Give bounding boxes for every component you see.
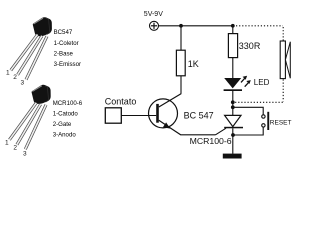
- wire LED to anode node: [232, 91, 234, 115]
- MCR100-6 package leg pin 2: [17, 104, 41, 144]
- svg-text:Contato: Contato: [105, 96, 137, 106]
- svg-text:MCR100-6: MCR100-6: [53, 100, 83, 107]
- switch contact box Contato: [105, 108, 121, 123]
- wire dotted speaker return: [235, 101, 283, 103]
- BC547 package leg pin 3: [26, 36, 47, 79]
- svg-text:2-Base: 2-Base: [54, 51, 74, 58]
- node junction at 1K branch: [179, 24, 183, 28]
- thyristor MCR100-6: [216, 115, 244, 134]
- wire to RESET bottom: [234, 127, 264, 135]
- svg-text:3-Emissor: 3-Emissor: [54, 61, 81, 68]
- svg-text:MCR100-6: MCR100-6: [190, 136, 232, 146]
- MCR100-6 package leg pin 1: [9, 103, 36, 140]
- wire top rail: [159, 25, 234, 27]
- node speaker return junction: [231, 100, 235, 104]
- svg-text:1K: 1K: [188, 59, 199, 69]
- wire cathode to ground: [232, 128, 234, 154]
- svg-text:3-Anodo: 3-Anodo: [53, 132, 77, 139]
- svg-text:1: 1: [5, 140, 9, 147]
- wire emitter to gate: [180, 134, 215, 136]
- wire Contato to base: [121, 115, 156, 117]
- BC547 package body: [33, 17, 52, 36]
- wire rail to 330R: [232, 26, 234, 34]
- wire dotted rail to speaker: [236, 25, 283, 27]
- svg-text:1-Coletor: 1-Coletor: [54, 40, 79, 47]
- speaker LS1: [280, 41, 290, 79]
- svg-text:BC 547: BC 547: [184, 111, 214, 121]
- supply terminal 5V-9V: [144, 11, 163, 30]
- LED D1: [224, 76, 251, 91]
- resistor 330R: [228, 34, 260, 58]
- node junction at 330R branch: [231, 24, 235, 28]
- pushbutton RESET: [262, 112, 270, 130]
- svg-text:2: 2: [13, 145, 17, 152]
- MCR100-6 package body: [32, 85, 51, 104]
- resistor 1K: [176, 50, 198, 76]
- wire dotted speaker bottom lead: [282, 79, 284, 101]
- svg-text:1: 1: [6, 69, 10, 76]
- wire rail to 1K: [180, 26, 182, 50]
- node reset top junction: [231, 105, 235, 109]
- wire 330R to LED: [232, 58, 234, 79]
- ground: [223, 154, 242, 159]
- svg-text:330R: 330R: [239, 41, 261, 51]
- svg-text:2-Gate: 2-Gate: [53, 121, 72, 128]
- MCR100-6 package leg pin 3: [25, 105, 46, 149]
- node reset bottom junction: [231, 133, 235, 137]
- wire to RESET top: [234, 107, 264, 115]
- svg-text:2: 2: [13, 74, 17, 81]
- svg-text:RESET: RESET: [270, 120, 292, 127]
- svg-text:1-Catodo: 1-Catodo: [53, 110, 79, 117]
- svg-text:BC547: BC547: [54, 29, 73, 36]
- BC547 package leg pin 2: [18, 36, 42, 75]
- svg-text:3: 3: [21, 80, 25, 87]
- svg-text:LED: LED: [254, 78, 270, 87]
- BC547 package leg pin 1: [11, 35, 38, 71]
- wire dotted speaker top lead: [282, 27, 284, 41]
- transistor Q1 BC547: [149, 94, 182, 135]
- svg-text:5V-9V: 5V-9V: [144, 11, 163, 18]
- svg-text:3: 3: [23, 150, 27, 157]
- wire 1K to collector: [180, 76, 182, 94]
